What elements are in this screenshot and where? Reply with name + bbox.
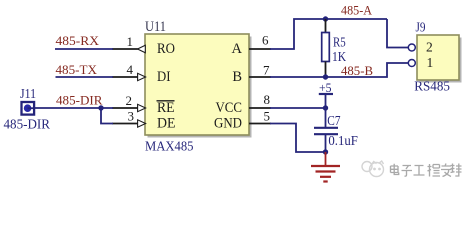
svg-text:DI: DI xyxy=(157,69,171,85)
svg-text:5: 5 xyxy=(264,109,271,124)
wire net B / 485-B from pin 7 to J9 pin 1 xyxy=(270,63,409,77)
wire pin 6 up to node A top rail xyxy=(270,19,387,49)
svg-text:485-B: 485-B xyxy=(341,64,373,78)
resistor R5 xyxy=(322,19,330,77)
svg-text:DE: DE xyxy=(157,116,176,132)
svg-text:GND: GND xyxy=(214,116,242,132)
svg-text:J11: J11 xyxy=(20,87,36,102)
wire net 485-RX to pin 1 xyxy=(55,48,113,50)
svg-text:485-DIR: 485-DIR xyxy=(56,94,103,108)
pin 8 (VCC) stub xyxy=(249,107,271,109)
watermark logo xyxy=(362,161,384,177)
wire pin 8 (VCC) to +5 node xyxy=(270,107,326,109)
capacitor C7 xyxy=(314,108,338,152)
svg-text:485-A: 485-A xyxy=(341,3,372,17)
svg-text:4: 4 xyxy=(127,62,134,77)
wire top rail down to J9 pin 2 xyxy=(387,19,409,48)
wire pin 5 (GND) down to ground node xyxy=(270,124,326,153)
connector J9 body xyxy=(417,35,462,83)
pin 3 (DE) stub and input triangle xyxy=(112,120,146,127)
svg-text:485-TX: 485-TX xyxy=(56,63,98,77)
svg-text:1: 1 xyxy=(127,34,134,49)
pin 5 (GND) stub xyxy=(249,123,271,125)
svg-text:U11: U11 xyxy=(145,19,166,35)
svg-text:A: A xyxy=(232,41,243,57)
pin 6 (A) stub xyxy=(249,48,271,50)
svg-text:485-RX: 485-RX xyxy=(56,34,100,48)
pin 7 (B) stub xyxy=(249,76,271,78)
svg-text:C7: C7 xyxy=(327,114,340,129)
pin 2 (RE) stub and input triangle xyxy=(112,104,146,111)
svg-text:1: 1 xyxy=(427,55,434,70)
power symbol +5 xyxy=(319,80,333,108)
svg-text:7: 7 xyxy=(263,62,270,77)
junction dot at R5 top xyxy=(323,16,328,21)
wire net 485-DIR from J11 to junction and pin 2 xyxy=(35,107,114,109)
svg-text:MAX485: MAX485 xyxy=(145,140,194,155)
svg-text:6: 6 xyxy=(262,33,269,48)
svg-text:RS485: RS485 xyxy=(414,79,450,94)
junction dot at VCC node xyxy=(323,105,328,110)
IC U11 body (MAX485) xyxy=(145,34,252,138)
watermark text (CJK approximated) xyxy=(391,164,462,177)
pin name RE (active low, overline) xyxy=(157,100,175,116)
J9 pin 2 circle xyxy=(408,44,415,51)
ground symbol xyxy=(311,152,340,182)
svg-text:RE: RE xyxy=(157,100,175,116)
junction dot at 485-DIR split xyxy=(98,105,103,110)
svg-text:J9: J9 xyxy=(416,21,426,36)
wire junction branch down to pin 3 xyxy=(101,108,113,124)
wire net 485-TX to pin 4 xyxy=(56,76,114,78)
svg-text:+5: +5 xyxy=(319,80,332,95)
svg-text:2: 2 xyxy=(126,93,133,108)
pin 4 (DI) stub and input triangle xyxy=(112,73,146,80)
svg-text:2: 2 xyxy=(426,39,433,54)
connector J11 xyxy=(22,102,35,115)
svg-text:8: 8 xyxy=(264,92,271,107)
svg-text:R5: R5 xyxy=(333,35,346,50)
svg-text:RO: RO xyxy=(157,41,175,57)
svg-text:VCC: VCC xyxy=(216,100,243,116)
pin 1 (RO) stub and output triangle xyxy=(112,45,145,52)
svg-text:485-DIR: 485-DIR xyxy=(4,117,51,132)
svg-text:0.1uF: 0.1uF xyxy=(328,134,358,149)
svg-text:B: B xyxy=(232,69,242,85)
J9 pin 1 circle xyxy=(408,60,415,67)
svg-text:3: 3 xyxy=(128,108,135,123)
junction dot at R5 bottom xyxy=(323,74,328,79)
junction dot at ground node xyxy=(323,149,328,154)
